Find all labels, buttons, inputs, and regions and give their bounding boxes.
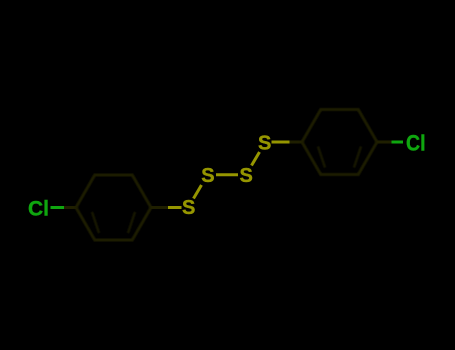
atom label S4 bbox=[258, 133, 271, 155]
bond S4-C1' sulfur half bbox=[272, 141, 290, 144]
bond S2-S3 bbox=[216, 173, 238, 176]
bond S3-S4 bbox=[252, 152, 260, 166]
atom label Cl2 (right chlorine) bbox=[406, 131, 426, 156]
svg-text:Cl: Cl bbox=[28, 197, 49, 220]
benzene ring 2 (right, outline) bbox=[302, 110, 377, 175]
atom label S2 bbox=[201, 165, 214, 187]
benzene ring 1 inner double bonds bbox=[92, 181, 135, 233]
atom label S3 bbox=[240, 165, 253, 187]
benzene ring 1 (left, outline) bbox=[76, 175, 151, 240]
svg-text:S: S bbox=[240, 165, 253, 187]
bond S1-S2 bbox=[194, 185, 202, 199]
bond C1-S1 carbon half bbox=[151, 206, 168, 209]
svg-text:S: S bbox=[182, 197, 195, 219]
svg-text:Cl: Cl bbox=[406, 131, 426, 156]
bond C4'-Cl2 carbon half bbox=[377, 141, 392, 144]
atom label S1 bbox=[182, 197, 195, 219]
atom label Cl1 (left chlorine) bbox=[28, 197, 49, 220]
bond S4-C1' carbon half bbox=[290, 141, 303, 144]
bond Cl1-C4 green half bbox=[51, 206, 65, 209]
bond C1-S1 sulfur half bbox=[168, 206, 182, 209]
bond C4'-Cl2 green half bbox=[392, 141, 404, 144]
benzene ring 2 inner double bonds bbox=[318, 116, 361, 168]
svg-text:S: S bbox=[201, 165, 214, 187]
bond Cl1-C4 carbon half bbox=[64, 206, 76, 209]
svg-text:S: S bbox=[258, 133, 271, 155]
